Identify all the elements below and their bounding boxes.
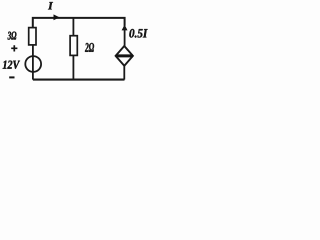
wire middle top	[72, 18, 74, 36]
label 2ohm	[85, 43, 94, 52]
label 3ohm	[8, 32, 17, 40]
wire left middle	[32, 45, 34, 80]
label plus	[11, 45, 17, 51]
dependent current source 0.5I diamond	[116, 46, 133, 66]
dependent source mid line	[116, 54, 133, 57]
resistor 2ohm	[70, 36, 77, 56]
current arrow 0.5I	[122, 25, 128, 31]
voltage source 12V	[25, 56, 41, 72]
label I	[48, 2, 53, 9]
wire top	[33, 18, 125, 28]
current arrow I on top wire	[54, 14, 60, 20]
label 0.5I	[129, 29, 147, 38]
label minus	[9, 76, 14, 78]
resistor 3ohm	[29, 28, 36, 45]
label 12V	[3, 61, 20, 69]
wire middle bottom	[72, 55, 74, 79]
wire right top	[124, 25, 126, 46]
wire right bottom	[123, 66, 125, 80]
wire bottom	[33, 79, 125, 81]
